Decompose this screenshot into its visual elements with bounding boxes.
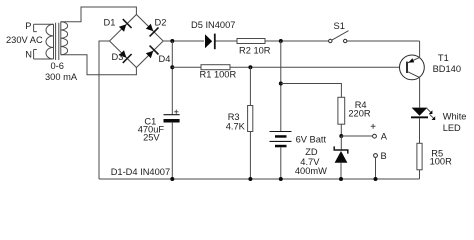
wire DC minus left rail	[99, 41, 110, 179]
svg-text:100R: 100R	[430, 157, 453, 167]
plus sign at A	[371, 124, 376, 129]
capacitor C1	[164, 110, 180, 123]
svg-text:D4: D4	[159, 54, 171, 64]
svg-text:400mW: 400mW	[295, 166, 327, 176]
node dot top rail x172	[170, 39, 174, 43]
svg-text:220R: 220R	[348, 108, 371, 118]
wire emitter to top rail	[419, 41, 421, 57]
wire B to bottom rail	[375, 157, 377, 179]
wire P lead	[34, 23, 54, 25]
node dot R1 rail x172	[170, 65, 174, 69]
diode D5	[205, 34, 215, 50]
node dot top rail x281	[279, 39, 283, 43]
svg-text:D1: D1	[104, 17, 116, 27]
svg-text:R1 100R: R1 100R	[200, 70, 237, 80]
svg-text:BD140: BD140	[433, 64, 461, 74]
node dot bottom rail C1	[170, 177, 174, 181]
node dot bottom rail ZD	[339, 177, 343, 181]
svg-text:LED: LED	[443, 123, 461, 133]
svg-text:D1-D4 IN4007: D1-D4 IN4007	[111, 167, 170, 177]
diode D4	[146, 46, 159, 59]
wire secondary top to bridge	[61, 7, 137, 22]
wire R5 to bottom rail	[419, 170, 421, 179]
diode D2	[146, 24, 159, 37]
svg-text:D5 IN4007: D5 IN4007	[191, 20, 235, 30]
terminal A	[373, 134, 377, 138]
svg-text:R3: R3	[228, 112, 240, 122]
svg-text:D3: D3	[112, 52, 124, 62]
svg-text:P: P	[25, 21, 31, 31]
node dot bottom rail R3	[248, 177, 252, 181]
battery BT1 6V	[270, 132, 292, 148]
node dot bottom rail B	[374, 177, 378, 181]
resistor R2	[237, 39, 265, 44]
transformer core	[56, 23, 59, 60]
wire R3 bottom lead	[249, 132, 251, 180]
svg-text:ZD: ZD	[305, 147, 318, 157]
svg-text:A: A	[381, 131, 388, 141]
wire C1 branch vertical	[171, 41, 173, 179]
svg-text:D2: D2	[155, 17, 167, 27]
wire top rail segments	[163, 40, 419, 42]
wire to R4	[281, 84, 342, 98]
wire R3 top lead	[249, 67, 251, 105]
wire R4 bottom lead	[340, 124, 342, 136]
svg-text:T1: T1	[438, 53, 449, 63]
transformer TR1 primary	[46, 24, 54, 59]
svg-text:25V: 25V	[143, 133, 160, 143]
resistor R3	[248, 106, 253, 132]
svg-text:White: White	[443, 111, 467, 121]
svg-text:4.7K: 4.7K	[226, 121, 246, 131]
wire bottom rail	[99, 178, 420, 180]
wire R1 rail	[172, 66, 407, 68]
diode D3	[119, 50, 132, 63]
svg-text:S1: S1	[334, 21, 345, 31]
node dot R1 rail R3 tap	[248, 65, 252, 69]
diode D1	[119, 19, 132, 32]
resistor R5	[417, 143, 422, 170]
bridge diamond	[110, 15, 164, 68]
svg-text:B: B	[381, 151, 387, 161]
svg-text:N: N	[25, 49, 32, 59]
svg-text:0-6: 0-6	[51, 61, 64, 71]
transformer TR1 secondary	[61, 22, 68, 55]
wire LED to R5	[419, 118, 421, 143]
LED D6 white	[411, 108, 435, 120]
svg-text:300 mA: 300 mA	[45, 72, 78, 82]
terminal N	[25, 49, 37, 59]
wire collector to LED	[419, 78, 421, 108]
svg-text:R2 10R: R2 10R	[239, 46, 271, 56]
node dot A junction	[339, 134, 343, 138]
terminal B	[374, 154, 378, 158]
wire to terminal A	[341, 135, 372, 137]
node dot bottom rail battery	[279, 177, 283, 181]
zener ZD	[334, 136, 348, 179]
resistor R1	[201, 65, 230, 70]
wire secondary bottom to bridge	[61, 55, 137, 75]
transistor T1	[400, 55, 425, 80]
wire N lead	[34, 58, 54, 60]
wire battery branch vertical	[280, 41, 282, 132]
svg-text:6V Batt: 6V Batt	[296, 134, 327, 144]
terminal P	[25, 21, 37, 32]
node dot R4 tap	[279, 82, 283, 86]
resistor R4	[338, 97, 345, 124]
switch S1	[329, 31, 349, 43]
svg-text:230V AC: 230V AC	[6, 35, 43, 45]
wire battery bottom lead	[280, 147, 282, 179]
